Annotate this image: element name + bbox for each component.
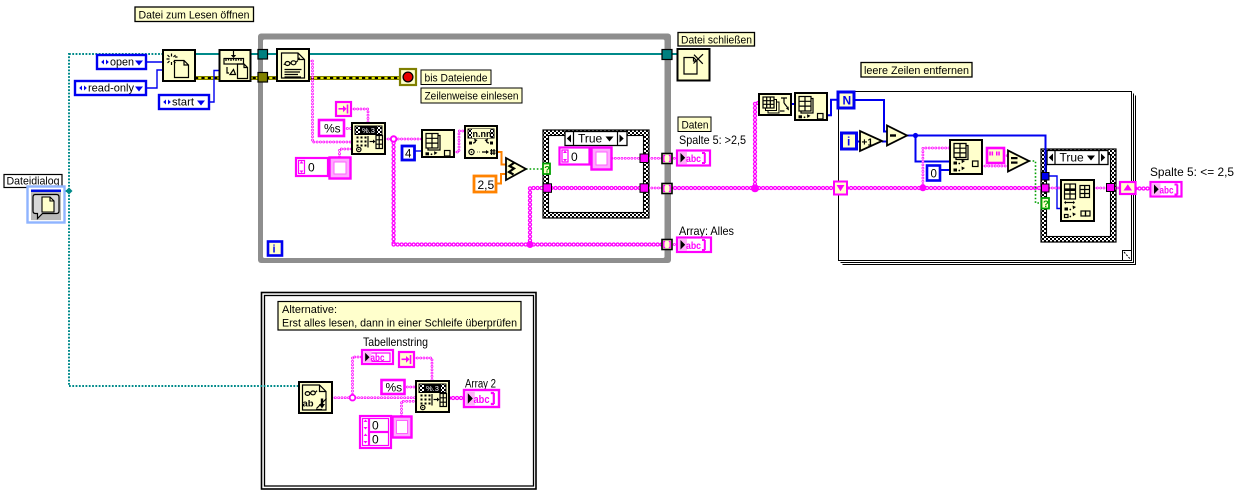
svg-text:Daten: Daten [682, 119, 709, 131]
svg-text:abc: abc [686, 153, 701, 165]
wire: empty array constant to Spreadsheet String to Array [340, 149, 353, 157]
enum constant open [97, 55, 146, 69]
for loop border (stacked frames) [839, 92, 1136, 265]
wire: 2D array from loop to for loop [671, 186, 835, 190]
wire: refnum teal inside while loop [266, 53, 663, 55]
while loop border [258, 34, 671, 264]
case structure 1 border [543, 130, 649, 218]
wire: 2D array across case 1 [552, 186, 641, 190]
case structure 2 header True [1047, 150, 1108, 164]
wire: alt branch up to Tabellenstring [353, 357, 363, 398]
svg-text:0: 0 [308, 161, 315, 175]
tunnel: refnum in (teal) [258, 50, 268, 60]
VI Open/Create/Replace File U1 [163, 50, 195, 81]
constant 4 [402, 146, 415, 161]
tunnel: case2 right (magenta) [1107, 184, 1115, 192]
svg-text:bis Dateiende: bis Dateiende [425, 72, 488, 84]
svg-text:abc: abc [686, 240, 701, 252]
svg-text:Zeilenweise einlesen: Zeilenweise einlesen [425, 91, 519, 103]
wire: empty string to Equal [1004, 154, 1008, 157]
indicator Array 2 [464, 390, 499, 407]
svg-text:abc: abc [474, 394, 490, 406]
wire: N to Subtract [854, 100, 887, 132]
svg-text:?: ? [1043, 199, 1049, 210]
case2 selector ? [1042, 198, 1050, 210]
VI Index Array U13 [950, 140, 982, 174]
VI Close File U8 [678, 49, 710, 81]
wire: 0 to Index Array col input [940, 169, 950, 171]
VI Delete From Array U15 [1061, 180, 1094, 221]
for loop iteration terminal i [842, 133, 857, 149]
svg-text:0: 0 [372, 419, 379, 433]
VI Index Array U5 [422, 130, 454, 157]
wire: I32 Index Array result to N [827, 100, 838, 116]
wire: Subtract result to case2 blue tunnel [907, 136, 1046, 173]
wire: Subtract result branch to Index Array row input [916, 136, 951, 162]
case1 selector ? [543, 164, 550, 176]
wire: 2D array for loop to indicator Spalte 5 le [1136, 186, 1151, 190]
wire: number to Greater [497, 152, 506, 165]
Greater? comparator U7 [506, 158, 526, 180]
svg-text:True: True [1060, 150, 1085, 164]
svg-text:i: i [273, 244, 276, 256]
wire: error cluster inside loop to stop terminal [266, 76, 400, 80]
svg-text:Datei zum Lesen öffnen: Datei zum Lesen öffnen [139, 10, 250, 22]
wire: file path (dashed teal) from dialog up to Open File and down to Alternative [64, 53, 299, 386]
junction: alt string branch [350, 395, 356, 401]
wire: case1 right tunnel row2 to loop tunnel [649, 187, 664, 190]
enum constant read-only [75, 81, 146, 95]
svg-text:Spalte 5: <= 2,5: Spalte 5: <= 2,5 [1150, 165, 1234, 179]
tunnel: case1 left (magenta) [543, 184, 552, 193]
svg-text:0: 0 [931, 169, 937, 181]
svg-text:leere Zeilen entfernen: leere Zeilen entfernen [864, 65, 969, 77]
wire: case2 tunnel to for loop tunnel [1115, 187, 1121, 190]
Dateidialog label [4, 175, 62, 188]
svg-text:Datei schließen: Datei schließen [681, 34, 752, 46]
EOL constant (loop) [336, 102, 351, 116]
wire: boolean Greater to case selector [526, 168, 543, 170]
VI Index Array U10 [795, 93, 827, 120]
VI Read Characters From File U16 [299, 382, 332, 413]
enum constant start [159, 95, 209, 109]
wire: string read line out of Read Text File [309, 61, 352, 142]
VI Fract/Exp String To Number U6 [465, 126, 497, 158]
alt %s constant [382, 380, 405, 395]
increment +1 U11 [860, 131, 882, 151]
wire: enum read-only to Open File [146, 70, 163, 88]
label Datei schliessen [678, 33, 755, 47]
indicator Spalte 5 gt 2,5 [677, 151, 710, 166]
VI Array Size U9 [759, 94, 791, 115]
svg-text:True: True [578, 131, 603, 145]
alternative comment box [278, 302, 521, 331]
Express VI File Dialog [28, 187, 65, 223]
svg-text:i: i [847, 135, 850, 149]
svg-text:read-only: read-only [88, 83, 135, 95]
case structure 2 border [1041, 149, 1116, 242]
svg-text:n.nn: n.nn [473, 129, 492, 139]
svg-text:%.3: %.3 [426, 384, 439, 393]
svg-text:Alternative:: Alternative: [282, 304, 337, 316]
svg-text:%s: %s [324, 122, 341, 136]
junction: index array branch [919, 184, 926, 191]
wire: 2D array inside for loop [847, 186, 1042, 190]
wire: i to increment [856, 141, 860, 143]
wire: alt %s [404, 386, 416, 389]
wire: enum start to Set File Position [209, 71, 220, 103]
label Daten [678, 117, 711, 132]
svg-text:2,5: 2,5 [478, 178, 495, 192]
indicator Spalte 5 le 2,5 [1151, 182, 1182, 197]
svg-text:+1: +1 [862, 138, 874, 149]
empty string constant [987, 148, 1004, 163]
junction: array size branch [751, 184, 759, 192]
wire: case2 left tunnel to Delete From Array [1049, 187, 1061, 190]
junction: spreadsheet output [391, 136, 397, 142]
svg-text:Array 2: Array 2 [465, 379, 496, 391]
VI Read Text File U3 [277, 49, 309, 81]
svg-text:Array: Alles: Array: Alles [679, 224, 734, 238]
wire: Delete From Array to case2 right tunnel [1094, 187, 1107, 190]
tunnel: case1 right row2 (magenta) [640, 184, 649, 193]
wire: 2D array Spreadsheet out to Index Array [385, 138, 422, 141]
svg-text:abc: abc [1160, 185, 1174, 197]
svg-text:0: 0 [372, 433, 379, 447]
svg-text:open: open [110, 57, 134, 69]
wire: 2D array branch up to Array Size [755, 103, 759, 188]
wire: alt 2D array out to Array 2 [449, 396, 464, 400]
tunnel: loop out row2 [662, 184, 672, 194]
junction: subtract branch [913, 133, 918, 138]
label Datei zum Lesen öffnen [135, 7, 254, 22]
wire: 2D array bottom run to loop tunnel [394, 242, 663, 246]
wire: EOL constant to Spreadsheet String to Array [351, 109, 368, 123]
tunnel: loop out row1 [662, 154, 672, 164]
case1 array constant 0 [560, 148, 612, 170]
svg-text:Spalte 5: >2,5: Spalte 5: >2,5 [679, 133, 746, 147]
tunnel: refnum out (teal) [662, 50, 672, 60]
junction: bottom wire branch [527, 241, 534, 248]
tunnel: error in (olive) [258, 73, 268, 83]
wire: case1 0-array element to right tunnel [612, 157, 640, 160]
for loop count terminal N [838, 92, 854, 108]
wire: 2D array down from junction to bottom [391, 139, 395, 245]
alternative section double border [262, 293, 537, 490]
svg-text:Tabellenstring: Tabellenstring [363, 335, 428, 349]
stop terminal (red) [400, 69, 416, 85]
case structure 1 header True [565, 131, 627, 145]
svg-text:start: start [172, 97, 194, 109]
wire: 2D array branch up into case 1 [530, 188, 543, 245]
svg-text:N: N [843, 94, 852, 108]
wire: I32 Array Size to Index Array [791, 103, 795, 105]
wire: alt EOL const down [414, 358, 432, 381]
constant 0 (for loop) [927, 166, 940, 181]
subtract U12 [887, 126, 907, 146]
wire: enum open to Open File [146, 61, 163, 63]
wire: string element Index Array to Equal [982, 165, 1008, 168]
wire: case1 tunnel to loop tunnel row1 [649, 157, 664, 160]
tunnel: case2 blue [1042, 173, 1050, 181]
wire: boolean Equal to case2 selector [1029, 161, 1041, 203]
VI Set File Position U2 [220, 50, 251, 81]
tunnel: for loop auto-index out [1120, 182, 1136, 194]
wire: 4 to Index Array index [414, 150, 422, 152]
wire: alt string Read File to Spreadsheet String to Array [332, 396, 416, 399]
%s constant (loop) [319, 120, 344, 136]
indicator Array: Alles [677, 238, 711, 253]
wire: row array Index Array to Fract/Exp String To Number [454, 131, 465, 152]
VI Spreadsheet String To Array U17 [416, 381, 449, 412]
wire: loop tunnel to indicator Array Alles [671, 243, 677, 246]
wire: loop tunnel to indicator Spalte 5 gt [671, 157, 677, 160]
wire: increment to Subtract [882, 141, 887, 143]
array constant 0 (loop) [296, 158, 351, 179]
wire: refnum teal loop to Close File [671, 53, 678, 55]
equal comparator U14 [1008, 151, 1029, 172]
indicator Tabellenstring [362, 350, 393, 364]
while loop iteration terminal i [268, 242, 282, 256]
wire: 2D array branch up to Index Array [923, 148, 950, 188]
label bis Dateiende [421, 70, 491, 85]
wire: %s to Spreadsheet String to Array [344, 127, 352, 130]
tunnel: for loop auto-index in [834, 182, 847, 195]
alt array constant 0 0 [360, 416, 412, 448]
wire: 2,5 to Greater [495, 174, 507, 184]
alt EOL constant [399, 352, 414, 367]
label leere Zeilen entfernen [861, 63, 972, 78]
wire: alt array constant up [402, 401, 417, 416]
VI Spreadsheet String To Array U4 [352, 123, 385, 154]
svg-text:4: 4 [405, 149, 412, 161]
constant 2,5 [474, 176, 496, 192]
svg-text:ab: ab [303, 399, 314, 410]
tunnel: loop out row3 [662, 240, 672, 250]
svg-text:%s: %s [386, 381, 403, 395]
tunnel: case2 left (magenta) [1042, 184, 1050, 192]
tunnel: case1 right row1 (magenta) [640, 154, 649, 163]
label Zeilenweise einlesen [421, 88, 522, 103]
wire: case2 blue tunnel to Delete From Array [1049, 176, 1061, 209]
junction: path wire at dialog (teal diamond) [66, 188, 73, 195]
svg-text:?: ? [544, 164, 550, 175]
svg-text:%.3: %.3 [362, 126, 375, 135]
svg-text:0: 0 [571, 150, 578, 164]
wire: error cluster Open File to Set File Position [195, 76, 259, 80]
svg-text:Erst alles lesen, dann in eine: Erst alles lesen, dann in einer Schleife… [282, 318, 517, 330]
wire: refnum teal Open File to Set File Position to loop [195, 53, 259, 55]
svg-text:abc: abc [371, 353, 385, 364]
